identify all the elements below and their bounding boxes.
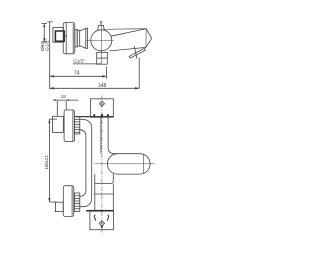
svg-text:74: 74 (74, 70, 80, 76)
svg-text:148: 148 (98, 83, 107, 89)
svg-text:G1/2": G1/2" (73, 59, 85, 64)
svg-text:G1/2": G1/2" (45, 38, 51, 51)
svg-text:150±21: 150±21 (44, 155, 49, 170)
svg-text:18: 18 (61, 94, 66, 99)
